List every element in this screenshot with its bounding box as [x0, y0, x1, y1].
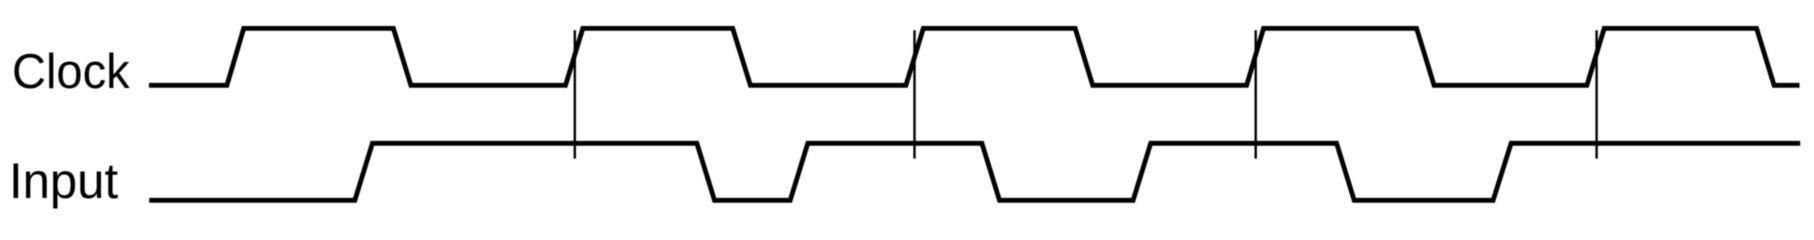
- wire input waveform: [149, 143, 1800, 200]
- tick mark 4 at clock rising edge 5: [1595, 30, 1597, 158]
- wire clock waveform: [149, 28, 1800, 85]
- tick mark 3 at clock rising edge 4: [1254, 30, 1256, 158]
- svg-text:Clock: Clock: [12, 45, 130, 99]
- svg-text:Input: Input: [9, 153, 118, 209]
- tick mark 1 at clock rising edge 2: [574, 30, 576, 158]
- tick mark 2 at clock rising edge 3: [913, 30, 915, 158]
